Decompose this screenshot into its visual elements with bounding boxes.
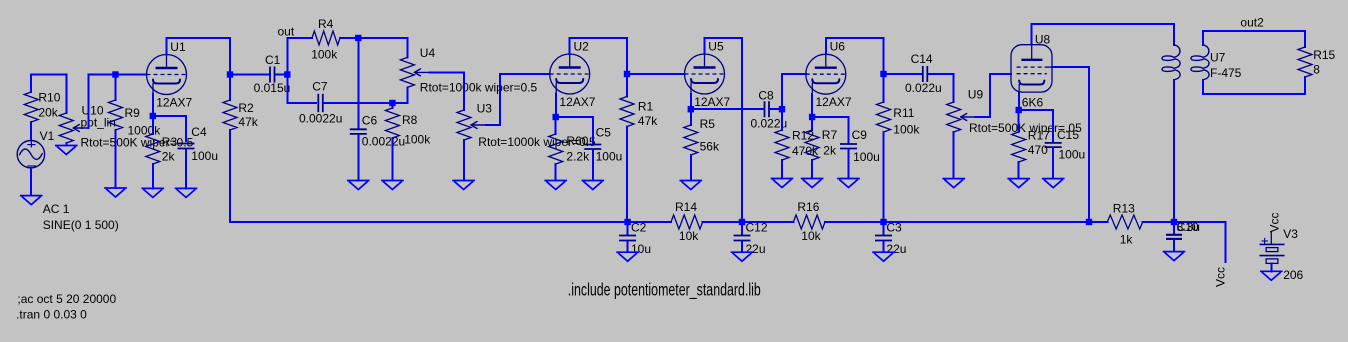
wire cathode junction to C5 — [556, 117, 593, 143]
svg-text:U6: U6 — [830, 40, 846, 54]
node bus C2/R1 — [624, 219, 630, 225]
svg-text:R11: R11 — [893, 106, 914, 120]
svg-text:100u: 100u — [191, 149, 218, 163]
svg-text:0.015u: 0.015u — [254, 81, 291, 95]
svg-text:C4: C4 — [191, 125, 207, 139]
wire primary bottom to supply bus — [1173, 80, 1175, 222]
wire C6 node to U4 top — [358, 38, 407, 57]
wire R16 to C3 — [825, 221, 884, 223]
capacitor C5 — [584, 126, 622, 164]
svg-text:V3: V3 — [1283, 227, 1298, 241]
wire R17 top lead — [1018, 110, 1020, 132]
wire cathode junction to C4 — [153, 116, 186, 141]
svg-text:U4: U4 — [420, 46, 436, 60]
svg-text:R14: R14 — [675, 200, 697, 214]
transformer U7 secondary winding — [1191, 45, 1209, 80]
triode U6 — [806, 40, 852, 109]
svg-text:R60: R60 — [566, 134, 588, 148]
battery V3 — [1260, 227, 1304, 282]
wire U2 plate rail — [570, 38, 627, 74]
svg-text:Rtot=1000k wiper=0.5: Rtot=1000k wiper=0.5 — [420, 81, 538, 95]
svg-text:R4: R4 — [318, 17, 334, 31]
wire C12 bottom to ground — [741, 241, 743, 252]
svg-text:1000k: 1000k — [128, 124, 162, 138]
wire R9 bottom to ground — [115, 130, 117, 188]
svg-text:10u: 10u — [631, 242, 651, 256]
wire R5 top lead — [690, 109, 692, 125]
resistor R5 — [684, 117, 720, 155]
ground V1 — [21, 196, 42, 205]
ground C6 — [348, 181, 369, 190]
resistor R13 — [1107, 201, 1142, 246]
wire plate node to C1 — [230, 74, 269, 76]
potentiometer U9 — [947, 87, 1082, 135]
wire R11 bottom to supply bus — [883, 132, 885, 222]
capacitor C10 — [1166, 220, 1200, 239]
svg-text:C7: C7 — [312, 79, 328, 93]
svg-text:12AX7: 12AX7 — [156, 95, 192, 109]
svg-text:47k: 47k — [238, 115, 258, 129]
ground R5 — [680, 181, 701, 190]
svg-text:U7: U7 — [1210, 51, 1226, 65]
triode U5 — [685, 39, 731, 109]
svg-text:U9: U9 — [968, 87, 984, 101]
node C8/R12/U6 grid — [779, 106, 785, 112]
svg-text:C9: C9 — [852, 128, 868, 142]
wire R1 top lead — [626, 74, 628, 97]
node bus screen — [1086, 219, 1092, 225]
svg-text:22u: 22u — [746, 242, 766, 256]
wire C9 bottom to ground — [848, 150, 850, 179]
ground R7 — [802, 179, 823, 188]
svg-text:C8: C8 — [758, 89, 774, 103]
svg-text:.tran 0 0.03 0: .tran 0 0.03 0 — [16, 308, 87, 322]
wire U8 screen to supply bus — [1052, 67, 1089, 222]
wire secondary top to R15 — [1203, 31, 1305, 47]
svg-text:U1: U1 — [170, 40, 186, 54]
wire C3 bottom to ground — [883, 241, 885, 252]
wire U4 bottom jog — [392, 87, 407, 103]
ground U3 — [453, 181, 474, 190]
triode U2 — [550, 39, 596, 108]
svg-text:0.022u: 0.022u — [905, 81, 942, 95]
svg-text:2k: 2k — [823, 144, 837, 158]
ground C2 — [617, 252, 638, 261]
wire C10 bottom to ground — [1173, 240, 1175, 252]
wire U2 cathode down — [555, 94, 557, 117]
node bus C3/R11 — [880, 219, 886, 225]
wire out node down to C7 — [287, 75, 316, 104]
wire U1 plate to R2 node — [167, 38, 231, 75]
wire bus to Vcc flag — [1174, 222, 1225, 262]
node U6 plate junction — [880, 71, 886, 77]
wire C14 right to U9 top — [929, 74, 954, 102]
wire R60 bottom to ground — [555, 164, 557, 181]
wire R1 bottom to supply bus — [626, 127, 628, 223]
transformer U7 primary winding — [1162, 45, 1180, 80]
svg-text:100u: 100u — [1059, 147, 1086, 161]
ground R17 — [1008, 179, 1029, 188]
svg-text:100k: 100k — [404, 132, 431, 146]
svg-text:206: 206 — [1283, 268, 1303, 282]
wire C3 top lead — [883, 222, 885, 235]
node U2 cathode junction — [553, 114, 559, 120]
wire R7 bottom to ground — [811, 160, 813, 179]
capacitor C12 — [734, 221, 768, 257]
node U5 cathode junction — [688, 106, 694, 112]
wire U1 cathode down — [152, 94, 154, 116]
wire U4 wiper to U3 top — [429, 72, 464, 110]
capacitor C2 — [619, 221, 651, 257]
ground U9 — [943, 179, 964, 188]
resistor R10 — [24, 90, 61, 122]
resistor R2 — [223, 100, 259, 130]
transformer U7 labels — [1210, 51, 1242, 81]
ground C3 — [873, 252, 894, 261]
svg-text:10k: 10k — [801, 229, 821, 243]
svg-text:100u: 100u — [596, 149, 623, 163]
resistor R14 — [671, 200, 703, 243]
wire U3 wiper to U2 grid — [486, 74, 550, 125]
node C7/R8/U4 — [389, 100, 395, 106]
wire C2 top lead — [627, 222, 629, 235]
capacitor C3 — [875, 221, 906, 257]
svg-text:R7: R7 — [822, 128, 838, 142]
ground C9 — [838, 179, 859, 188]
ground R12 — [772, 179, 793, 188]
wire U5 cathode down — [690, 94, 692, 109]
svg-text:2k: 2k — [162, 150, 176, 164]
wire U6 plate to C14 — [884, 73, 922, 75]
svg-text:V1: V1 — [40, 129, 55, 143]
wire C6 top lead — [357, 38, 359, 128]
resistor R4 — [311, 17, 340, 62]
node out — [284, 71, 290, 77]
wire C2 bottom to ground — [627, 241, 629, 252]
wire R8 top lead — [391, 103, 393, 108]
svg-text:U5: U5 — [708, 39, 724, 53]
svg-text:F-475: F-475 — [1210, 66, 1242, 80]
wire R9 top lead — [115, 75, 117, 101]
potentiometer U4 — [400, 46, 537, 95]
svg-text:U2: U2 — [574, 39, 590, 53]
text ac directive — [17, 292, 116, 306]
wire C7 right to R8 node — [325, 102, 393, 104]
triode U1 — [147, 40, 193, 109]
svg-text:470: 470 — [1028, 143, 1048, 157]
svg-text:12AX7: 12AX7 — [694, 95, 730, 109]
svg-text:C12: C12 — [746, 221, 768, 235]
node U8 cathode junction — [1016, 107, 1022, 113]
wire V3 bottom to ground — [1270, 263, 1272, 271]
svg-text:R1: R1 — [638, 99, 654, 113]
wire bus to R13 — [1089, 221, 1107, 223]
wire U10 bottom to ground — [65, 143, 67, 146]
svg-text:out2: out2 — [1240, 15, 1264, 29]
node U2 plate junction — [624, 71, 630, 77]
svg-text:100u: 100u — [853, 150, 880, 164]
resistor R16 — [793, 200, 825, 243]
svg-text:U3: U3 — [477, 101, 493, 115]
svg-text:R16: R16 — [797, 200, 819, 214]
wire V1 bottom to ground — [30, 168, 32, 196]
wire R60 top lead — [555, 117, 557, 134]
svg-text:22u: 22u — [886, 242, 906, 256]
node bus C12/U5 — [739, 219, 745, 225]
wire cathode junction to C15 — [1019, 110, 1053, 141]
svg-text:R13: R13 — [1113, 201, 1135, 215]
wire U5 cathode to C8 — [691, 108, 763, 110]
svg-text:C1: C1 — [265, 53, 281, 67]
svg-text:C6: C6 — [362, 114, 378, 128]
svg-text:R15: R15 — [1313, 48, 1335, 62]
wire C6 bottom to ground — [357, 135, 359, 181]
svg-text:56k: 56k — [700, 139, 720, 153]
resistor R11 — [877, 102, 921, 137]
wire U3 bottom to ground — [463, 140, 465, 181]
svg-text:.include potentiometer_standar: .include potentiometer_standard.lib — [568, 281, 761, 300]
wire C10 top lead — [1173, 222, 1175, 234]
svg-text:R2: R2 — [238, 101, 254, 115]
ground R8 — [382, 181, 403, 190]
resistor R15 — [1298, 47, 1336, 77]
resistor R8 — [385, 108, 431, 146]
wire R8 bottom to ground — [391, 138, 393, 181]
svg-text:100k: 100k — [893, 123, 920, 137]
svg-text:8.3u: 8.3u — [1177, 220, 1200, 234]
ground V3 — [1261, 271, 1282, 280]
voltage source V1 — [17, 129, 119, 232]
node bus C10/primary — [1171, 219, 1177, 225]
wire bus C12 to R16 — [742, 221, 793, 223]
ground U10 — [56, 146, 77, 155]
capacitor C8 — [751, 89, 788, 131]
text include directive — [568, 281, 761, 300]
svg-text:20k: 20k — [38, 106, 58, 120]
potentiometer U10 — [59, 103, 193, 149]
svg-text:C2: C2 — [631, 221, 647, 235]
svg-text:100k: 100k — [311, 48, 338, 62]
svg-text:1k: 1k — [1120, 233, 1134, 247]
wire cathode junction to C9 — [812, 117, 848, 143]
wire U2 plate to U5 grid — [627, 73, 685, 75]
wire U10 wiper to U1 grid — [88, 75, 146, 129]
wire U6 plate rail — [826, 38, 884, 74]
svg-text:C5: C5 — [596, 126, 612, 140]
svg-text:12AX7: 12AX7 — [559, 95, 595, 109]
ground C5 — [582, 181, 603, 190]
ground R60 — [545, 181, 566, 190]
resistor R3 — [146, 134, 178, 164]
resistor R9 — [109, 100, 162, 138]
ground C10 — [1164, 252, 1185, 261]
node U6 cathode junction — [809, 114, 815, 120]
svg-text:;ac oct 5 20 20000: ;ac oct 5 20 20000 — [17, 292, 116, 306]
wire R10 top rail to pot U10 top — [31, 75, 66, 114]
svg-text:R3: R3 — [162, 135, 178, 149]
ground R3 — [142, 188, 163, 197]
wire R12 bottom to ground — [781, 160, 783, 179]
svg-text:10k: 10k — [679, 229, 699, 243]
text tran directive — [16, 308, 87, 322]
ground R9 — [105, 188, 126, 197]
wire C12 top lead — [741, 222, 743, 235]
wire R4 right to C6 node — [340, 37, 358, 39]
node U1 plate junction — [227, 71, 233, 77]
svg-text:C14: C14 — [911, 52, 933, 66]
svg-text:2.2k: 2.2k — [566, 149, 590, 163]
svg-text:12AX7: 12AX7 — [816, 95, 852, 109]
svg-text:C15: C15 — [1057, 128, 1079, 142]
wire U9 wiper to U8 grid — [976, 74, 1011, 117]
wire R12 top lead — [781, 109, 783, 130]
wire U8 plate to output transformer — [1032, 24, 1174, 45]
svg-text:0.0022u: 0.0022u — [299, 112, 342, 126]
node label Vcc at V3 — [1268, 212, 1282, 232]
resistor R7 — [805, 128, 837, 160]
wire C5 bottom to ground — [592, 150, 594, 181]
wire bus C3 to screen node — [884, 221, 1090, 223]
ground C4 — [176, 188, 197, 197]
wire U6 cathode down — [811, 94, 813, 117]
wire V1 top to R10 — [30, 122, 32, 141]
svg-text:Vcc: Vcc — [1268, 212, 1282, 232]
wire supply bus — [230, 221, 628, 223]
svg-text:R8: R8 — [402, 113, 418, 127]
node R4/C6 — [355, 35, 361, 41]
wire R5 bottom to ground — [690, 155, 692, 181]
node U1 cathode junction — [150, 113, 156, 119]
ground C12 — [732, 252, 753, 261]
wire R2 top lead — [229, 75, 231, 101]
svg-text:R17: R17 — [1028, 129, 1050, 143]
node label Vcc at bus end — [1214, 267, 1228, 287]
capacitor C7 — [299, 79, 342, 125]
wire out node up to R4 — [287, 38, 312, 75]
wire grid node up to U6 — [782, 74, 806, 109]
wire C15 bottom to ground — [1052, 148, 1054, 179]
wire R3 top lead — [152, 116, 154, 134]
svg-text:0.0022u: 0.0022u — [362, 135, 405, 149]
wire R14 to C12 — [703, 221, 742, 223]
wire R15 bottom to secondary bottom — [1203, 77, 1305, 94]
capacitor C1 — [254, 53, 291, 95]
node label out2 — [1240, 15, 1264, 29]
svg-text:6K6: 6K6 — [1022, 96, 1044, 110]
resistor R17 — [1012, 129, 1050, 163]
svg-text:Vcc: Vcc — [1214, 267, 1228, 287]
wire U9 bottom to ground — [953, 132, 955, 179]
wire C4 bottom to ground — [185, 150, 187, 189]
ground C15 — [1043, 179, 1064, 188]
svg-text:R5: R5 — [700, 117, 716, 131]
capacitor C14 — [905, 52, 942, 95]
wire U8 cathode down — [1018, 92, 1020, 110]
wire R17 bottom to ground — [1018, 162, 1020, 179]
svg-text:out: out — [278, 25, 295, 39]
capacitor C4 — [178, 125, 219, 163]
resistor R1 — [620, 97, 658, 129]
svg-text:SINE(0 1 500): SINE(0 1 500) — [43, 218, 119, 232]
resistor R60 — [549, 134, 590, 164]
svg-text:U8: U8 — [1035, 32, 1051, 46]
wire bus C2 to R14 — [628, 221, 671, 223]
pentode U8 — [1011, 32, 1052, 109]
node label out — [278, 25, 295, 39]
potentiometer U3 — [457, 101, 596, 149]
svg-text:R10: R10 — [38, 90, 60, 104]
svg-text:C3: C3 — [886, 221, 902, 235]
svg-text:R9: R9 — [125, 106, 141, 120]
svg-text:8: 8 — [1313, 62, 1320, 76]
wire U5 plate to supply bus — [705, 38, 743, 222]
node grid U1 / R9 junction — [112, 71, 118, 77]
wire R13 to C10 node — [1143, 221, 1174, 223]
wire R11 top lead — [883, 74, 885, 102]
resistor R12 — [775, 129, 819, 160]
wire C8 right to U6 grid node — [771, 108, 782, 110]
capacitor C6 — [350, 114, 405, 149]
capacitor C9 — [840, 128, 880, 164]
wire R3 bottom to ground — [152, 164, 154, 188]
svg-text:AC 1: AC 1 — [43, 202, 70, 216]
wire R7 top lead — [811, 117, 813, 130]
capacitor C15 — [1045, 128, 1086, 161]
wire C1 right — [276, 74, 288, 76]
wire R2 bottom to supply bus — [229, 130, 231, 222]
svg-text:47k: 47k — [638, 114, 658, 128]
